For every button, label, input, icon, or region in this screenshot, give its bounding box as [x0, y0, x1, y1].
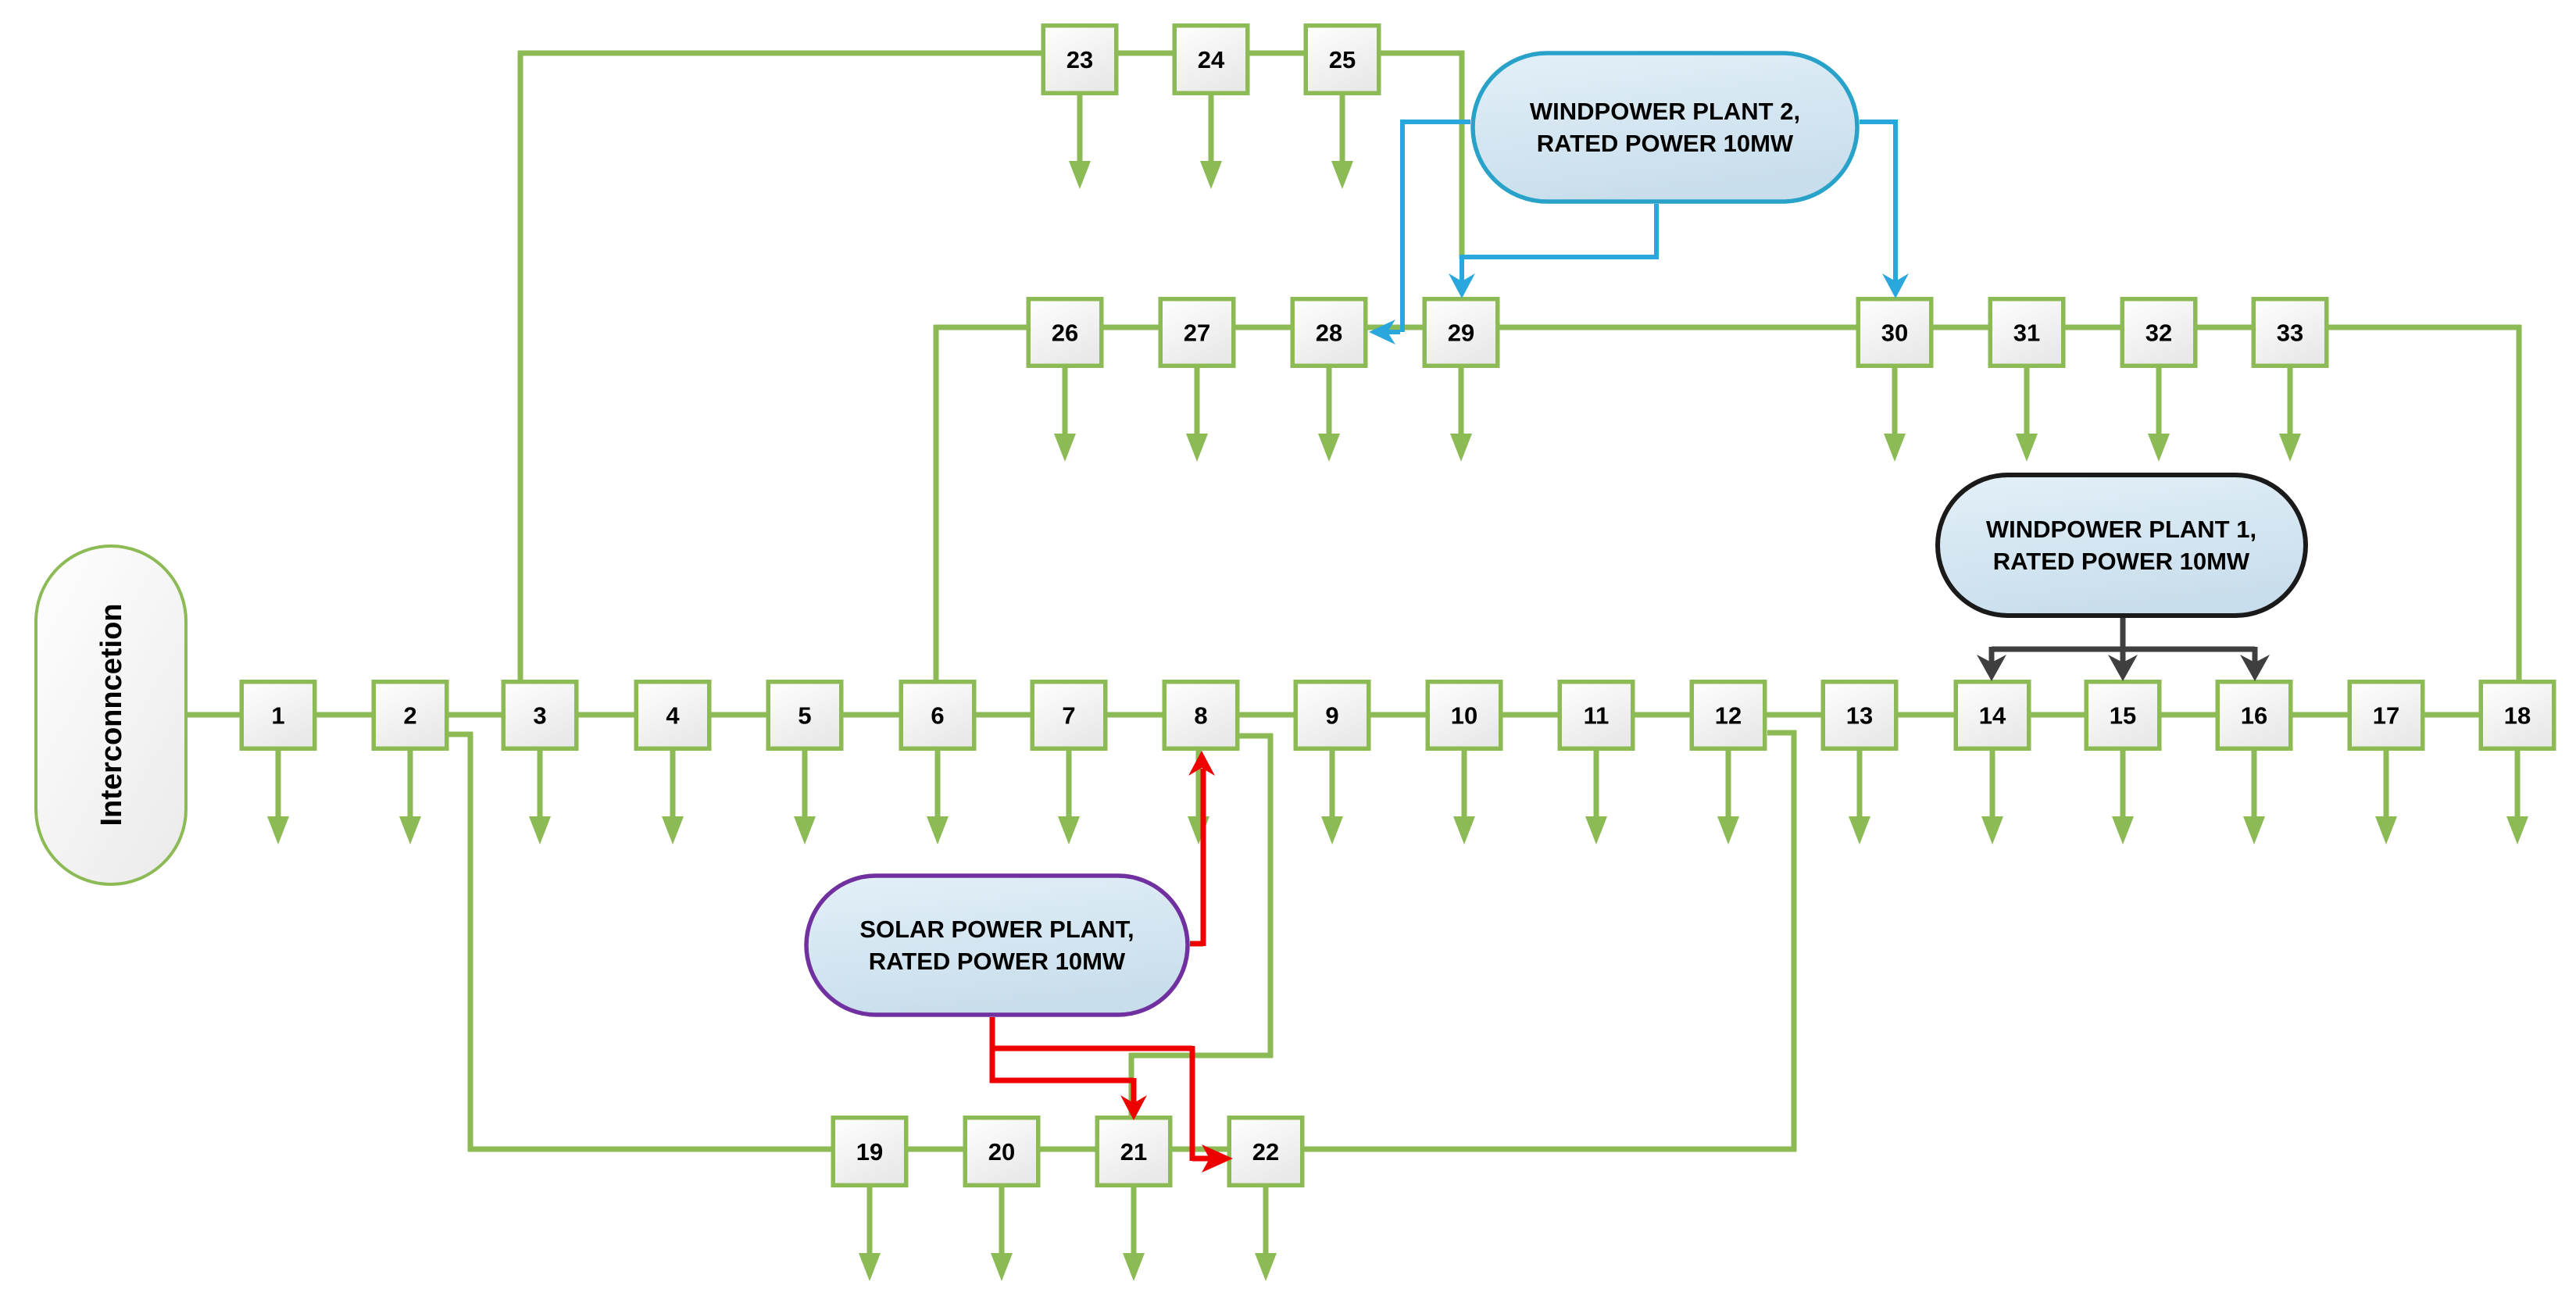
bus 24	[1174, 26, 1248, 94]
svg-text:WINDPOWER PLANT 1,: WINDPOWER PLANT 1,	[1986, 516, 2256, 543]
load arrow bus 33	[2279, 368, 2301, 462]
bus 6	[901, 682, 974, 749]
black arrow into bus16	[2240, 655, 2270, 681]
svg-text:31: 31	[2013, 320, 2040, 347]
svg-text:2: 2	[403, 702, 416, 730]
svg-text:RATED POWER 10MW: RATED POWER 10MW	[1993, 548, 2250, 575]
wire blue plant2 to bus30	[1860, 120, 1909, 298]
load arrow bus 26	[1054, 368, 1076, 462]
bus 20	[965, 1118, 1038, 1186]
svg-text:6: 6	[931, 702, 944, 730]
svg-text:RATED POWER 10MW: RATED POWER 10MW	[1537, 130, 1794, 157]
bus 25	[1306, 26, 1379, 94]
bus 19	[833, 1118, 906, 1186]
bus 28	[1292, 299, 1366, 366]
bus 1	[241, 682, 315, 749]
wire branch row 19-22 tie from bus2 and bus12	[448, 730, 1796, 1151]
bus 10	[1427, 682, 1501, 749]
svg-text:32: 32	[2145, 320, 2172, 347]
bus 29	[1424, 299, 1498, 366]
load arrow bus 12	[1717, 751, 1739, 844]
svg-text:20: 20	[988, 1138, 1015, 1166]
svg-text:21: 21	[1120, 1138, 1147, 1166]
wire black plant1 distribution bar	[1992, 618, 2255, 664]
bus 17	[2349, 682, 2423, 749]
load arrow bus 3	[529, 751, 551, 844]
bus 4	[636, 682, 709, 749]
svg-text:13: 13	[1846, 702, 1873, 730]
load arrow bus 1	[267, 751, 289, 844]
bus 9	[1295, 682, 1369, 749]
svg-text:9: 9	[1325, 702, 1338, 730]
bus 18	[2481, 682, 2554, 749]
bus 27	[1160, 299, 1234, 366]
load arrow bus 8	[1188, 751, 1209, 844]
load arrow bus 7	[1058, 751, 1080, 844]
wire red solar stem down	[990, 1017, 995, 1083]
wire branch row 26-33 with taps to bus6 and bus18	[934, 325, 2521, 680]
load arrow bus 30	[1884, 368, 1906, 462]
bus 13	[1823, 682, 1896, 749]
load arrow bus 16	[2243, 751, 2265, 844]
bus 30	[1858, 299, 1931, 366]
load arrow bus 20	[991, 1187, 1013, 1281]
svg-text:25: 25	[1329, 46, 1356, 73]
bus 32	[2122, 299, 2195, 366]
load arrow bus 14	[1981, 751, 2003, 844]
bus 33	[2253, 299, 2327, 366]
wire red solar to bus21	[990, 1078, 1147, 1120]
svg-text:5: 5	[798, 702, 811, 730]
svg-text:15: 15	[2110, 702, 2136, 730]
load arrow bus 2	[399, 751, 421, 844]
bus 8	[1164, 682, 1238, 749]
svg-text:3: 3	[533, 702, 546, 730]
wire branch row 23-24-25 with taps to bus3 and bus29	[518, 51, 1464, 680]
svg-text:11: 11	[1584, 702, 1610, 730]
wire main feeder bus1-bus18	[188, 712, 2556, 718]
load arrow bus 31	[2016, 368, 2038, 462]
svg-text:26: 26	[1052, 320, 1078, 347]
windpower plant 2 capsule	[1473, 53, 1857, 202]
load arrow bus 10	[1453, 751, 1475, 844]
load arrow bus 19	[859, 1187, 881, 1281]
bus 12	[1692, 682, 1765, 749]
bus 31	[1990, 299, 2063, 366]
bus 5	[768, 682, 841, 749]
load arrow bus 23	[1069, 95, 1091, 189]
bus 7	[1032, 682, 1106, 749]
load arrow bus 17	[2375, 751, 2397, 844]
svg-text:4: 4	[666, 702, 680, 730]
load arrow bus 29	[1450, 368, 1472, 462]
solar power plant capsule	[806, 876, 1188, 1015]
bus 14	[1956, 682, 2029, 749]
svg-text:33: 33	[2277, 320, 2303, 347]
load arrow bus 28	[1318, 368, 1340, 462]
load arrow bus 21	[1123, 1187, 1145, 1281]
load arrow bus 32	[2148, 368, 2170, 462]
load arrow bus 22	[1255, 1187, 1277, 1281]
bus 21	[1097, 1118, 1170, 1186]
load arrow bus 13	[1849, 751, 1870, 844]
svg-text:22: 22	[1252, 1138, 1279, 1166]
bus 3	[503, 682, 577, 749]
load arrow bus 25	[1331, 95, 1353, 189]
black arrow into bus15	[2108, 649, 2138, 681]
interconnection source capsule	[36, 546, 186, 884]
svg-text:WINDPOWER PLANT 2,: WINDPOWER PLANT 2,	[1530, 98, 1800, 125]
load arrow bus 27	[1186, 368, 1208, 462]
bus 2	[373, 682, 447, 749]
wire red solar to bus8	[1188, 751, 1215, 946]
svg-text:1: 1	[271, 702, 284, 730]
black arrow into bus14	[1977, 655, 2006, 681]
load arrow bus 9	[1321, 751, 1343, 844]
load arrow bus 15	[2112, 751, 2134, 844]
wire red solar to bus22	[990, 1046, 1233, 1173]
svg-text:RATED POWER 10MW: RATED POWER 10MW	[869, 948, 1126, 975]
svg-text:12: 12	[1715, 702, 1742, 730]
load arrow bus 6	[927, 751, 949, 844]
svg-text:28: 28	[1316, 320, 1342, 347]
svg-text:19: 19	[856, 1138, 883, 1166]
load arrow bus 5	[794, 751, 816, 844]
svg-text:10: 10	[1451, 702, 1477, 730]
bus 15	[2086, 682, 2160, 749]
wire tie bus8 to bus21	[1129, 734, 1273, 1116]
svg-text:29: 29	[1448, 320, 1474, 347]
wire blue plant2 to bus29	[1449, 204, 1659, 298]
svg-text:24: 24	[1198, 46, 1225, 73]
bus 16	[2217, 682, 2291, 749]
svg-text:SOLAR POWER PLANT,: SOLAR POWER PLANT,	[859, 916, 1134, 943]
load arrow bus 11	[1585, 751, 1607, 844]
bus 11	[1560, 682, 1633, 749]
svg-text:7: 7	[1062, 702, 1075, 730]
svg-text:18: 18	[2504, 702, 2531, 730]
bus 22	[1229, 1118, 1302, 1186]
load arrow bus 4	[662, 751, 684, 844]
svg-text:17: 17	[2373, 702, 2399, 730]
svg-text:16: 16	[2241, 702, 2267, 730]
load arrow bus 18	[2506, 751, 2528, 844]
svg-text:27: 27	[1184, 320, 1210, 347]
svg-text:8: 8	[1194, 702, 1207, 730]
svg-text:14: 14	[1979, 702, 2006, 730]
svg-text:Interconncetion: Interconncetion	[95, 603, 128, 826]
windpower plant 1 capsule	[1938, 475, 2306, 616]
bus 23	[1043, 26, 1117, 94]
bus 26	[1028, 299, 1102, 366]
load arrow bus 24	[1200, 95, 1222, 189]
svg-text:30: 30	[1881, 320, 1908, 347]
svg-text:23: 23	[1066, 46, 1093, 73]
wire blue plant2 to bus28	[1369, 120, 1470, 345]
